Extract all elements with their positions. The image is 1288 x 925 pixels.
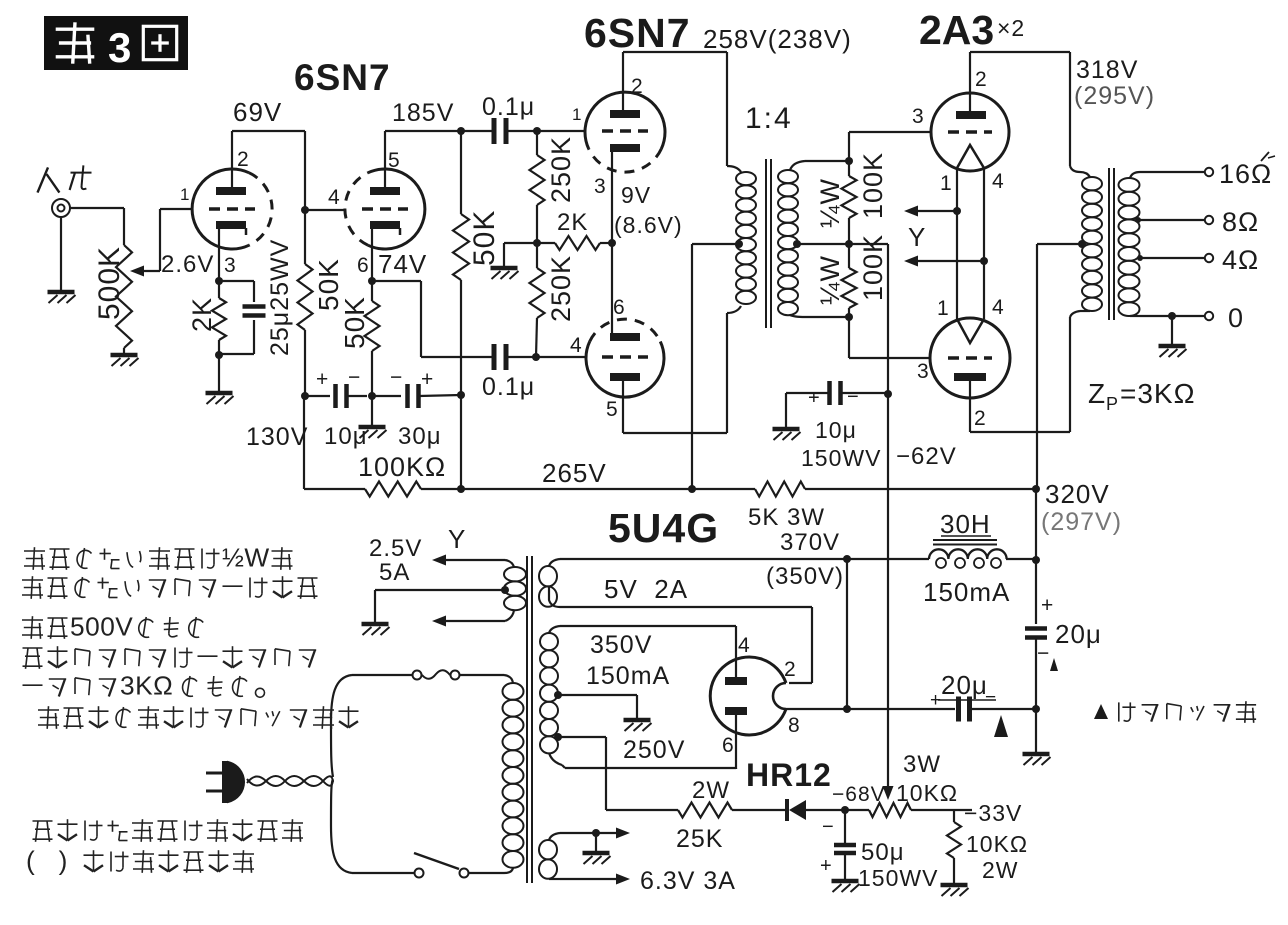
wire: V6 plate to OPT bbox=[970, 431, 1070, 433]
svg-text:3: 3 bbox=[108, 24, 132, 71]
svg-text:0.1μ: 0.1μ bbox=[482, 93, 535, 121]
V4 grid bbox=[602, 355, 648, 359]
svg-text:320V: 320V bbox=[1045, 479, 1110, 509]
terminal 4ohm bbox=[1205, 254, 1213, 262]
svg-text:50μ: 50μ bbox=[861, 839, 905, 866]
wire: 258V rail bbox=[623, 51, 727, 53]
node: 370V at cap bbox=[843, 705, 851, 713]
resistor 50K (divider) bbox=[460, 131, 462, 214]
terminal 8ohm bbox=[1205, 216, 1213, 224]
svg-text:+: + bbox=[808, 387, 821, 409]
resistor 250K upper bbox=[536, 131, 538, 155]
svg-text:20μ: 20μ bbox=[1055, 619, 1102, 649]
ground (pot) bbox=[111, 353, 138, 358]
HV tap bias bbox=[554, 733, 562, 741]
wire: jack to pot top bbox=[70, 207, 124, 209]
wire: V4 plate to IT bbox=[623, 432, 727, 434]
note line 6 球記号の番号はソケット番号 bbox=[38, 709, 59, 711]
wire: V2 cathode to coupling cap bbox=[372, 280, 421, 282]
wire: sec bottom bbox=[805, 316, 849, 318]
wire: rail left riser bbox=[303, 396, 305, 489]
svg-text:6: 6 bbox=[357, 254, 370, 277]
resistor 50K (V1 plate load) bbox=[298, 264, 313, 330]
terminal 0 bbox=[1205, 312, 1213, 320]
V3 plate bbox=[610, 110, 640, 118]
PT primary coil bbox=[504, 675, 513, 683]
svg-text:250K: 250K bbox=[546, 136, 576, 203]
arrow 6.3V top bbox=[596, 832, 618, 834]
resistor 2K (grid stopper) bbox=[537, 242, 555, 244]
IT primary CT bbox=[735, 240, 743, 248]
node: 30u right bbox=[457, 391, 465, 399]
capacitor 10u 150WV bbox=[786, 392, 830, 394]
svg-text:5K 3W: 5K 3W bbox=[748, 504, 825, 531]
svg-text:3: 3 bbox=[224, 254, 237, 277]
svg-text:−: − bbox=[985, 687, 997, 708]
capacitor 25u bypass loop bbox=[219, 280, 254, 282]
svg-text:=3KΩ: =3KΩ bbox=[1120, 378, 1196, 409]
svg-text:0: 0 bbox=[1228, 303, 1244, 333]
wire: to V2 grid bbox=[305, 209, 346, 211]
svg-text:130V: 130V bbox=[246, 423, 308, 451]
capacitor 50u bbox=[844, 810, 846, 843]
svg-text:69V: 69V bbox=[233, 97, 282, 127]
svg-text:1: 1 bbox=[937, 297, 950, 320]
svg-text:500V: 500V bbox=[70, 612, 133, 642]
note line B1 記入した電圧は無信号時 bbox=[33, 820, 53, 822]
node: 185V/50K bbox=[457, 127, 465, 135]
svg-text:185V: 185V bbox=[392, 99, 454, 127]
svg-text:258V(238V): 258V(238V) bbox=[703, 24, 852, 54]
svg-text:+: + bbox=[421, 368, 434, 391]
node: 130V rail left bbox=[301, 392, 309, 400]
wire: mid to ground bbox=[504, 242, 537, 244]
wire: 50K to 130V rail bbox=[304, 330, 306, 396]
wire: pin8 output bbox=[786, 708, 847, 710]
IT secondary coil bbox=[790, 161, 805, 170]
svg-text:1: 1 bbox=[180, 185, 190, 204]
svg-text:100KΩ: 100KΩ bbox=[358, 452, 446, 482]
svg-text:2K: 2K bbox=[557, 209, 588, 236]
choke 30H bbox=[929, 549, 1007, 559]
node: 0 tap ground bbox=[1168, 312, 1176, 320]
note block-cap legend bbox=[1094, 704, 1108, 719]
ground (OPT) bbox=[1159, 344, 1186, 349]
svg-text:P: P bbox=[1106, 394, 1119, 414]
wire: 69V down-feed bbox=[304, 131, 306, 264]
IT core bbox=[765, 159, 767, 328]
note line 5 ーダンス3KΩのもの。 bbox=[23, 684, 43, 686]
svg-text:4: 4 bbox=[738, 634, 751, 657]
node+arrow Y lower bbox=[980, 257, 988, 265]
node+arrow Y upper bbox=[953, 207, 961, 215]
svg-text:370V: 370V bbox=[780, 529, 840, 556]
svg-text:3: 3 bbox=[594, 175, 607, 198]
capacitor 0.1u (upper) bbox=[492, 118, 497, 144]
svg-text:5V 2A: 5V 2A bbox=[604, 574, 688, 604]
svg-text:5: 5 bbox=[388, 149, 401, 172]
wire: jack to ground bbox=[60, 217, 62, 290]
svg-text:2: 2 bbox=[784, 658, 797, 681]
IT primary coil bbox=[727, 166, 741, 172]
node: bias cap bbox=[884, 390, 892, 398]
svg-text:4: 4 bbox=[570, 334, 583, 357]
svg-text:−: − bbox=[847, 386, 860, 408]
capacitor 10u bbox=[333, 384, 338, 408]
power tube V6 (2A3 lower) bbox=[930, 318, 1010, 398]
resistor 25K 2W bbox=[606, 809, 678, 811]
block cap triangle bbox=[1050, 658, 1058, 671]
svg-text:250V: 250V bbox=[623, 736, 685, 764]
filament leg 4 bbox=[983, 168, 985, 319]
V6 filament bbox=[957, 319, 984, 343]
wire+arrow 6.3V bottom bbox=[560, 878, 618, 880]
wire: pot bottom to ground bbox=[123, 348, 125, 353]
node: -68V bbox=[841, 806, 849, 814]
AC plug bbox=[206, 772, 225, 775]
capacitor 20u (320V) bbox=[1025, 626, 1047, 631]
wire: HV top bbox=[560, 625, 736, 627]
mark above 16ohm bbox=[1261, 152, 1269, 161]
wire: 320V riser segment bbox=[1035, 489, 1037, 624]
arrow onto pot bbox=[883, 786, 894, 800]
choke core bbox=[933, 539, 997, 541]
ground (filter) bbox=[1023, 752, 1050, 757]
svg-text:4: 4 bbox=[992, 296, 1005, 319]
svg-text:(8.6V): (8.6V) bbox=[614, 212, 683, 238]
V4 plate bbox=[610, 373, 640, 381]
node: choke/320V bbox=[1032, 556, 1040, 564]
capacitor 20u (370V) bbox=[847, 708, 955, 710]
wire: to ground bbox=[1035, 709, 1037, 752]
svg-text:150mA: 150mA bbox=[923, 577, 1010, 607]
svg-text:+: + bbox=[930, 690, 942, 711]
wire: bias feed -62V bbox=[887, 244, 889, 794]
tap 8ohm bbox=[1135, 217, 1141, 223]
wire: 185V rail bbox=[385, 130, 495, 132]
title block 第3図 bbox=[44, 16, 188, 70]
svg-text:−62V: −62V bbox=[896, 443, 957, 470]
ground (jack) bbox=[48, 290, 75, 295]
V2 grid bbox=[362, 207, 408, 211]
twisted cord bbox=[247, 776, 333, 786]
svg-text:74V: 74V bbox=[378, 249, 427, 279]
svg-text:1: 1 bbox=[940, 172, 953, 195]
svg-text:2.5V: 2.5V bbox=[369, 535, 422, 562]
terminal 16ohm bbox=[1205, 168, 1213, 176]
resistor 100K lower bbox=[848, 244, 850, 268]
ground (bias cap) bbox=[773, 427, 800, 432]
node: 370V tap bbox=[843, 555, 851, 563]
node: V4 grid node bbox=[532, 353, 540, 361]
svg-text:Y: Y bbox=[448, 524, 466, 554]
wire: 130V rail bbox=[305, 395, 330, 397]
svg-text:½W: ½W bbox=[222, 543, 270, 573]
svg-text:HR12: HR12 bbox=[746, 757, 832, 793]
resistor 250K lower bbox=[536, 243, 538, 268]
wire: 370V riser bbox=[846, 559, 848, 709]
wire: CT to bias line bbox=[849, 243, 888, 245]
svg-text:−: − bbox=[822, 816, 835, 838]
svg-text:−: − bbox=[1037, 642, 1050, 665]
node: IT CT to rail bbox=[688, 485, 696, 493]
V1 cathode bbox=[216, 221, 246, 229]
svg-text:150mA: 150mA bbox=[586, 662, 670, 690]
V1 grid bbox=[209, 207, 255, 211]
triode V3 (6SN7 c) bbox=[585, 92, 665, 149]
svg-text:16Ω: 16Ω bbox=[1219, 159, 1272, 189]
wire: 0 tap bbox=[1140, 315, 1205, 317]
svg-text:10μ: 10μ bbox=[815, 417, 857, 443]
wire: choke out bbox=[1006, 558, 1036, 560]
svg-text:Y: Y bbox=[908, 222, 926, 252]
svg-text:318V: 318V bbox=[1076, 56, 1138, 84]
svg-text:30μ: 30μ bbox=[398, 423, 442, 450]
rectifier V7 (5U4G) bbox=[710, 657, 786, 735]
wire: to 2A3 upper grid bbox=[848, 132, 850, 161]
bias pot 10K 3W bbox=[845, 809, 869, 811]
svg-text:8Ω: 8Ω bbox=[1222, 207, 1259, 237]
capacitor 30u bbox=[405, 384, 410, 408]
svg-text:+: + bbox=[316, 368, 329, 391]
input label 入力 bbox=[38, 167, 49, 192]
svg-text:2A3: 2A3 bbox=[919, 7, 994, 53]
note line 3 電圧500Vのもの bbox=[22, 619, 43, 621]
arrow 2.5V top bbox=[444, 559, 505, 561]
node: V2 grid tap bbox=[301, 206, 309, 214]
svg-text:3KΩ: 3KΩ bbox=[120, 671, 173, 701]
svg-text:Z: Z bbox=[1088, 378, 1106, 409]
svg-text:50K: 50K bbox=[339, 296, 370, 349]
ground (2.5V CT) bbox=[362, 622, 389, 627]
svg-text:6.3V 3A: 6.3V 3A bbox=[640, 867, 736, 895]
node: divider mid bbox=[533, 239, 541, 247]
wire: V5 plate to OPT bbox=[970, 51, 1070, 53]
svg-text:6SN7: 6SN7 bbox=[294, 57, 391, 98]
svg-text:2: 2 bbox=[631, 75, 644, 98]
wire: wiper to V1 grid bbox=[159, 209, 161, 271]
svg-text:−33V: −33V bbox=[964, 800, 1022, 826]
resistor 100K upper bbox=[848, 161, 850, 176]
V7 anode bar bottom bbox=[725, 707, 747, 715]
svg-text:×2: ×2 bbox=[997, 15, 1025, 41]
PT core bbox=[526, 556, 528, 883]
svg-text:(295V): (295V) bbox=[1074, 82, 1155, 110]
wire: primary top bend bbox=[331, 675, 352, 777]
svg-text:150WV: 150WV bbox=[801, 445, 881, 471]
svg-text:25K: 25K bbox=[676, 825, 723, 853]
svg-text:(350V): (350V) bbox=[766, 563, 844, 590]
wire: pin2 filament bbox=[789, 682, 812, 684]
svg-text:3W: 3W bbox=[903, 751, 941, 778]
resistor 10K 2W bbox=[953, 810, 955, 822]
svg-text:+: + bbox=[820, 855, 833, 877]
svg-text:¼W: ¼W bbox=[815, 178, 845, 228]
wire: 370V line bbox=[560, 558, 929, 560]
triode V1 (6SN7 a) bbox=[192, 169, 249, 249]
note line 2 指定のないケミコンは使用 bbox=[22, 579, 43, 581]
capacitor 0.1u (lower) bbox=[492, 344, 497, 370]
HV tap 250V bbox=[554, 691, 562, 699]
potentiometer 500K bbox=[116, 245, 132, 348]
V3 cathode bbox=[610, 144, 640, 152]
node: x461 rail bbox=[457, 485, 465, 493]
svg-text:500K: 500K bbox=[93, 246, 126, 320]
wire: to 2A3 lower grid bbox=[848, 317, 850, 358]
resistor 2K (V1 cathode) bbox=[218, 281, 220, 298]
V1 plate bbox=[216, 187, 246, 195]
svg-text:8: 8 bbox=[788, 714, 801, 737]
svg-text:4Ω: 4Ω bbox=[1222, 245, 1259, 275]
ground (HV CT) bbox=[624, 718, 651, 723]
node: 6.3V ground bbox=[592, 829, 600, 837]
node: ground bus bbox=[1032, 705, 1040, 713]
switch bbox=[469, 872, 504, 874]
V5 plate bbox=[956, 111, 986, 119]
filament leg 1 bbox=[956, 168, 958, 319]
ground (6.3V) bbox=[583, 851, 610, 856]
svg-text:150WV: 150WV bbox=[858, 865, 938, 891]
ground (rail) bbox=[359, 425, 386, 430]
V6 grid bbox=[948, 356, 992, 360]
OPT core bbox=[1108, 168, 1110, 320]
svg-text:1: 1 bbox=[572, 105, 582, 124]
input jack J1 bbox=[52, 199, 70, 217]
wire: 69V rail bbox=[232, 130, 305, 132]
wire: 16ohm tap bbox=[1140, 171, 1205, 173]
PT HV winding bbox=[549, 626, 560, 633]
svg-text:2W: 2W bbox=[692, 777, 730, 804]
ground (divider) bbox=[491, 266, 518, 271]
svg-text:5U4G: 5U4G bbox=[608, 505, 719, 551]
node: V2 cathode junction bbox=[368, 277, 376, 285]
svg-text:350V: 350V bbox=[590, 631, 652, 659]
svg-text:−68V: −68V bbox=[832, 783, 886, 806]
node: sec top bbox=[845, 157, 853, 165]
V7 anode bar top bbox=[725, 677, 747, 685]
wire: 6.3V top bbox=[560, 832, 596, 834]
node: 2K bottom bbox=[215, 351, 223, 359]
svg-text:6: 6 bbox=[613, 296, 626, 319]
svg-text:3: 3 bbox=[917, 360, 930, 383]
svg-text:9V: 9V bbox=[621, 182, 651, 208]
svg-text:0.1μ: 0.1μ bbox=[482, 373, 535, 401]
PT 5V winding bbox=[549, 559, 560, 566]
PT 2.5V winding bbox=[505, 560, 514, 567]
svg-text:4: 4 bbox=[328, 186, 341, 209]
resistor 5K 3W bbox=[755, 482, 805, 497]
svg-text:100K: 100K bbox=[858, 234, 888, 301]
svg-text:+: + bbox=[1041, 594, 1054, 617]
svg-text:25μ25WV: 25μ25WV bbox=[266, 239, 294, 356]
svg-text:265V: 265V bbox=[542, 458, 607, 488]
svg-text:50K: 50K bbox=[468, 210, 501, 266]
tap 4ohm bbox=[1137, 255, 1143, 261]
V6 plate bbox=[954, 373, 986, 381]
resistor 100Kohm bbox=[365, 482, 421, 497]
PT 6.3V winding bbox=[549, 833, 560, 840]
diode HR12 bbox=[785, 799, 789, 821]
svg-text:2: 2 bbox=[974, 407, 987, 430]
svg-text:1:4: 1:4 bbox=[745, 102, 793, 135]
triode V2 (6SN7 b) bbox=[368, 169, 425, 249]
resistor 50K (V2 cathode) bbox=[371, 281, 373, 301]
2.5V CT bbox=[501, 586, 509, 594]
wire: sec top bbox=[805, 160, 849, 162]
svg-text:( ): ( ) bbox=[26, 846, 68, 876]
wire bbox=[372, 395, 401, 397]
svg-text:−: − bbox=[390, 366, 403, 389]
pot wiper arrow bbox=[130, 266, 144, 277]
svg-text:5: 5 bbox=[606, 398, 619, 421]
svg-text:30H: 30H bbox=[940, 509, 991, 539]
svg-text:(297V): (297V) bbox=[1041, 508, 1122, 536]
OPT primary coil bbox=[1080, 172, 1090, 177]
svg-text:20μ: 20μ bbox=[941, 670, 988, 700]
svg-text:6SN7: 6SN7 bbox=[584, 10, 691, 56]
note line 1 指定のない抵抗は1/2W形 bbox=[24, 550, 45, 552]
block cap triangle 2 bbox=[994, 715, 1008, 737]
svg-text:6: 6 bbox=[722, 734, 735, 757]
ground (10K) bbox=[941, 883, 968, 888]
svg-text:5A: 5A bbox=[379, 559, 410, 586]
svg-text:4: 4 bbox=[992, 170, 1005, 193]
svg-text:−: − bbox=[348, 366, 361, 389]
svg-text:2: 2 bbox=[237, 148, 250, 171]
node: V1 cathode junction bbox=[215, 277, 223, 285]
svg-text:3: 3 bbox=[912, 105, 925, 128]
V2 cathode bbox=[370, 221, 400, 229]
svg-text:100K: 100K bbox=[858, 152, 888, 219]
node: rail ground bbox=[368, 392, 376, 400]
note line 4 出力トランスは一次インピ bbox=[23, 647, 43, 649]
V7 notch bbox=[773, 683, 786, 709]
node: sec CT bbox=[793, 240, 801, 248]
V4 top electrode bbox=[610, 333, 640, 341]
wire: primary bottom bend bbox=[331, 779, 352, 873]
svg-text:2K: 2K bbox=[187, 297, 217, 332]
OPT primary CT bbox=[1078, 240, 1086, 248]
power tube V5 (2A3 upper) bbox=[931, 93, 1009, 171]
svg-text:10KΩ: 10KΩ bbox=[896, 780, 958, 806]
ground (V1 cathode) bbox=[206, 391, 233, 396]
fuse bbox=[460, 674, 504, 676]
svg-text:10KΩ: 10KΩ bbox=[966, 831, 1028, 857]
node: V3 cathode bbox=[608, 239, 616, 247]
node: 320V bbox=[1032, 485, 1040, 493]
V3 grid bbox=[602, 129, 648, 133]
arrow 2.5V bottom bbox=[444, 620, 505, 622]
wire: 265V rail bbox=[304, 488, 365, 490]
wire: HV bottom bbox=[562, 765, 565, 768]
svg-text:2W: 2W bbox=[982, 857, 1019, 883]
svg-text:2.6V: 2.6V bbox=[161, 251, 214, 278]
svg-text:¼W: ¼W bbox=[815, 255, 845, 305]
V2 plate bbox=[370, 187, 400, 195]
svg-text:2: 2 bbox=[975, 68, 988, 91]
V5 filament bbox=[957, 145, 984, 168]
node: V3 grid node bbox=[533, 127, 541, 135]
triode V4 (6SN7 d) bbox=[586, 342, 664, 398]
OPT secondary coil bbox=[1130, 172, 1140, 178]
svg-text:250K: 250K bbox=[546, 255, 576, 322]
V5 grid bbox=[948, 130, 992, 134]
ground (50u) bbox=[832, 879, 859, 884]
